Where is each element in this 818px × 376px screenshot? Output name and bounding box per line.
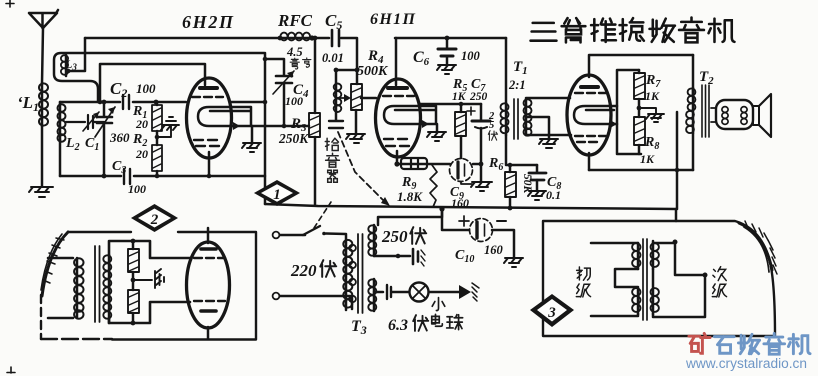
capacitor C9: [450, 159, 473, 182]
node x315 top: [313, 36, 318, 41]
svg-text:0.01: 0.01: [322, 51, 344, 65]
node R6 bottom: [508, 206, 513, 211]
node R4 top: [355, 68, 360, 73]
vertical bus x315 (R3/AVC): [314, 39, 317, 205]
wire L2 top: [59, 102, 62, 104]
transformer T3 primary winding: [345, 240, 348, 310]
top rail to RFC: [85, 37, 281, 40]
svg-text:1: 1: [273, 187, 281, 203]
coil L3: [65, 55, 68, 76]
node R6: [508, 163, 513, 168]
grid box: [617, 70, 641, 154]
inset2 core: [95, 246, 100, 322]
resistor R6: [509, 165, 512, 172]
ground (6.3V): [459, 285, 471, 299]
bottom step rail: [265, 204, 676, 209]
variable capacitor C1: [103, 102, 106, 116]
svg-text:4.5: 4.5: [286, 45, 303, 59]
wire L1 to ground: [41, 126, 44, 186]
V1 cathode stub: [208, 152, 211, 176]
svg-text:100: 100: [461, 49, 481, 63]
C7 plus sign: [467, 107, 475, 115]
inset2 tube stems: [207, 228, 210, 339]
svg-text:250K: 250K: [278, 131, 309, 146]
inset3 box: [543, 221, 775, 336]
ground (R7R8): [639, 108, 664, 122]
inset3 secondary bottom lead: [653, 275, 705, 317]
coil L2: [59, 104, 62, 140]
diamond 3: [530, 294, 574, 327]
HV center tap wire: [374, 255, 410, 258]
resistor R1: [156, 102, 159, 105]
T3 core: [358, 234, 363, 313]
V2 plate stub: [395, 38, 398, 85]
inductor RFC: [281, 37, 309, 40]
label 小: [432, 298, 445, 311]
inset3 secondary top lead: [653, 241, 675, 243]
svg-text:220: 220: [290, 261, 317, 280]
node C4 branch: [263, 57, 268, 62]
T3 secondary 6.3V winding: [373, 279, 376, 311]
lamp connector: [387, 285, 391, 299]
R4 wiper arrow: [340, 97, 348, 99]
wire L3 to top rail: [67, 38, 85, 71]
wire RFC to C5: [309, 37, 329, 40]
lamp bulb: [410, 283, 429, 302]
inset3 secondary upper: [652, 243, 655, 269]
V3 dashes top: [575, 92, 606, 94]
svg-text:100: 100: [128, 182, 146, 196]
svg-text:2: 2: [150, 212, 159, 228]
T1 core: [514, 99, 518, 139]
wire/box L3 plate loop: [54, 53, 264, 102]
inset2 primary leads: [48, 258, 73, 318]
switch link dashed: [314, 202, 331, 228]
tube V3 output envelope: [567, 75, 611, 155]
V1 grid loop arrow: [233, 122, 240, 130]
inset3 primary lower: [637, 288, 640, 314]
inset2 ground: [133, 269, 164, 288]
capacitor C3: [124, 169, 130, 184]
inset2 box: [68, 232, 256, 339]
ground connector (250V tap): [413, 249, 418, 264]
capacitor C10 electrolytic: [470, 219, 493, 242]
diamond 1: [254, 180, 300, 206]
C10 minus: [497, 220, 506, 222]
inset3 corner curl: [739, 223, 772, 270]
potentiometer R4: [351, 84, 362, 110]
V2 loop arrow: [422, 120, 429, 128]
capacitor C4: [276, 76, 292, 83]
svg-text:0.1: 0.1: [546, 188, 561, 202]
V2 plate bar: [388, 86, 407, 90]
inset3 primary jog: [615, 269, 638, 287]
node B+ rail: [439, 206, 444, 211]
vertical plate bus x265: [264, 53, 267, 204]
T1 secondary top wire to V3: [526, 97, 570, 100]
wire V2 loop to ground: [436, 124, 439, 131]
resistor R7: [638, 70, 641, 73]
V2 grid loop: [384, 106, 436, 124]
tank top rail: [60, 101, 186, 104]
trimmer capacitor: [66, 115, 104, 129]
svg-text:5: 5: [489, 120, 494, 131]
node cathode/C7: [479, 162, 484, 167]
C10 plus: [459, 216, 469, 226]
node R7R8: [638, 99, 641, 117]
capacitor C5: [332, 30, 339, 46]
svg-text:1K: 1K: [645, 89, 660, 103]
svg-text:www.crystalradio.cn: www.crystalradio.cn: [685, 356, 807, 371]
resistor R3: [309, 113, 320, 137]
inset3 primary upper: [637, 243, 640, 269]
T2 core: [702, 85, 709, 137]
V1 plate bar: [200, 86, 217, 90]
svg-text:500K: 500K: [357, 64, 389, 79]
svg-text:360: 360: [109, 130, 130, 145]
label 拾音器 vertical: [325, 138, 339, 182]
wire C10 branch: [442, 209, 469, 230]
node C1 bottom: [102, 174, 107, 179]
transformer T2 primary on right rail: [692, 55, 695, 97]
V2 cathode dashes: [384, 139, 409, 146]
T1 secondary bottom wire to V3: [526, 134, 571, 137]
node C4 bottom: [282, 124, 287, 129]
ground (C6): [437, 65, 456, 74]
svg-text:RFC: RFC: [277, 11, 313, 30]
V3 loop arrow: [610, 120, 617, 128]
wire R1-R2 junction: [156, 131, 159, 145]
svg-text:6Н2П: 6Н2П: [182, 12, 234, 32]
svg-text:100: 100: [136, 81, 156, 96]
screen line: [419, 103, 481, 106]
svg-text:1.8K: 1.8K: [397, 189, 423, 204]
V3 dashes bottom: [575, 136, 606, 142]
wire loop to ground: [251, 126, 254, 143]
inset2 transformer primary: [76, 258, 79, 318]
wire antenna to L1: [42, 28, 43, 83]
inset2 tube top bar: [201, 247, 216, 251]
inset2 tube dashes top: [194, 257, 225, 259]
node RFC left: [278, 36, 283, 41]
ground (C7/C9): [471, 182, 492, 191]
wire L2 bottom: [59, 140, 62, 176]
wire R4 to V2 grid: [361, 97, 376, 100]
V2 cathode stub: [396, 151, 399, 164]
inset2 corner curl: [42, 232, 68, 296]
V2 dashes: [383, 95, 414, 97]
node RFC right: [309, 35, 314, 40]
V3 grid loop: [574, 106, 617, 124]
svg-text:250: 250: [469, 91, 488, 103]
wire rail down to inset3: [675, 209, 678, 221]
V2 plate rail: [395, 37, 506, 40]
node R5 top: [459, 102, 464, 107]
C1 arrow: [95, 107, 115, 137]
inset2 tube bottom bar: [201, 309, 216, 313]
switch contact: [322, 232, 326, 236]
V3 bottom rail: [589, 169, 693, 172]
wire to C4: [265, 59, 284, 75]
node L3: [66, 69, 71, 74]
inset3 transformer core: [643, 239, 647, 320]
svg-text:50K: 50K: [521, 174, 533, 195]
T3 secondary HV winding: [373, 225, 376, 256]
wire switch to T3: [326, 234, 346, 241]
coil L1: [41, 83, 44, 126]
node R1 top: [154, 100, 159, 105]
speaker voice coil box: [716, 100, 753, 129]
node plate bus: [263, 100, 268, 105]
V1 dashes: [192, 96, 223, 98]
transformer T1 primary winding: [505, 103, 508, 135]
label 电珠: [432, 314, 463, 329]
T1 secondary winding: [525, 99, 528, 135]
svg-text:20: 20: [135, 117, 148, 131]
tank bottom rail: [60, 175, 265, 178]
wire node to pickup coil: [336, 70, 357, 84]
inset2 mid node: [132, 272, 135, 290]
V1 cathode dashes: [194, 140, 219, 146]
wire T3 250V to rail: [378, 209, 442, 225]
lamp wire right: [429, 291, 459, 294]
resistor R8: [634, 117, 645, 145]
registration mark bottom-left: [7, 367, 15, 373]
pickup coil: [335, 70, 338, 120]
ground (V1 grid): [242, 143, 261, 152]
inset2 resistor lower: [128, 290, 139, 313]
switch terminal upper: [273, 232, 280, 239]
voice coil right: [741, 107, 747, 113]
svg-text:160: 160: [451, 196, 469, 210]
trimmer arrow: [83, 112, 99, 131]
pickup dashed lead: [338, 132, 386, 203]
diamond 2: [131, 204, 178, 232]
ground (C10): [504, 258, 523, 267]
node C6: [445, 36, 450, 41]
ground (V2 grid): [427, 132, 446, 141]
wire lower to T3: [280, 296, 352, 309]
V1 grid loop: [198, 107, 251, 126]
svg-text:160: 160: [484, 243, 504, 257]
label 初级 vertical: [576, 267, 590, 297]
T1 primary bottom to R6 node: [506, 135, 537, 165]
resistor R9: [401, 158, 427, 169]
inset2 tube dashes bottom: [194, 300, 225, 302]
node pickup top: [334, 68, 339, 73]
antenna: [29, 10, 58, 28]
ground (R4): [346, 134, 365, 143]
watermark 矿石收音机: [689, 333, 810, 354]
svg-text:6Н1П: 6Н1П: [370, 11, 416, 28]
V1 plate wire right: [230, 101, 265, 104]
label 毫亨: [290, 58, 311, 69]
node R1R2: [155, 135, 160, 140]
V3 top rail: [589, 55, 693, 77]
pickup jack: [329, 121, 343, 128]
svg-text:100: 100: [285, 94, 303, 108]
title 三管推挽收音机: [531, 18, 735, 43]
capacitor C2: [123, 95, 129, 109]
switch wire upper: [280, 234, 305, 237]
tube V2 6N1P envelope: [376, 79, 421, 157]
resistor R2: [152, 145, 162, 171]
cathode line: [397, 163, 481, 166]
ground (T1 sec): [539, 139, 558, 148]
zigzag lead R9: [430, 165, 437, 207]
capacitor C7: [480, 104, 483, 120]
V3 bottom stub: [588, 153, 591, 170]
ground (R1R2): [157, 117, 179, 137]
wire C5 to R4 node: [341, 38, 357, 70]
inset3 secondary series link: [652, 269, 655, 287]
wire plate rail to T1: [505, 38, 508, 103]
switch blade: [303, 226, 320, 235]
speaker: [753, 106, 759, 125]
voice coil left: [722, 107, 728, 113]
V3 plate bar top: [581, 85, 598, 89]
label 次级 vertical: [712, 267, 726, 297]
C4 arrow: [273, 71, 294, 94]
ground (L1): [29, 187, 53, 197]
lamp wire left: [374, 291, 383, 294]
inset2 bottom wire: [109, 302, 190, 323]
svg-text:20: 20: [135, 147, 148, 161]
T1 center tap to ground: [526, 117, 549, 138]
V1 plate rail top: [100, 64, 205, 102]
grid line to R3: [252, 125, 309, 128]
registration mark top-left: [6, 0, 14, 7]
svg-text:1K: 1K: [640, 152, 655, 166]
node x100: [98, 100, 103, 105]
inset3 primary leads: [591, 243, 638, 316]
svg-text:2:1: 2:1: [508, 78, 526, 92]
cathode drop x677: [676, 112, 679, 209]
svg-text:250: 250: [381, 227, 408, 246]
inset3 secondary lower: [652, 288, 655, 314]
inset2 tube envelope: [187, 242, 230, 328]
inset2 resistor upper: [132, 241, 135, 249]
svg-text:6.3: 6.3: [388, 317, 408, 334]
node R2 bottom: [155, 174, 160, 179]
inset2 top wire: [109, 241, 190, 258]
ground (C8): [528, 191, 546, 200]
switch terminal lower: [273, 293, 280, 300]
tube V1 6N2P envelope: [187, 78, 232, 158]
svg-text:3: 3: [547, 305, 556, 321]
wire C4 to grid line: [283, 83, 286, 126]
inset2 secondary: [108, 255, 111, 323]
R4 bottom to ground: [355, 110, 358, 133]
svg-text:1K: 1K: [452, 91, 467, 103]
node C1 top: [102, 100, 107, 105]
capacitor C6: [446, 38, 449, 48]
resistor R5: [460, 104, 463, 112]
capacitor C8: [536, 165, 539, 172]
